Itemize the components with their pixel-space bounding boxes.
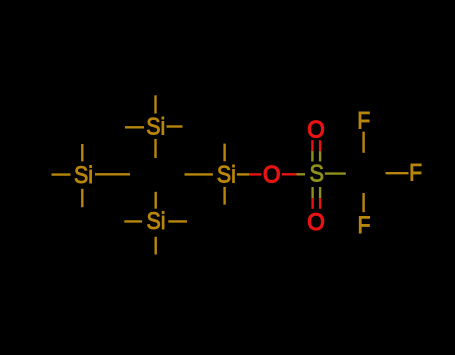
double bond S1=O2 line b (S half) [319, 151, 321, 161]
bond C2 to F2 (F half) [386, 172, 409, 174]
svg-text:O: O [263, 162, 281, 189]
double bond S1=O2 line a (S half) [311, 151, 313, 161]
svg-text:O: O [307, 209, 325, 236]
bond Si4 to O1 (O half) [249, 173, 261, 175]
svg-text:Si: Si [147, 208, 166, 235]
double bond S1=O3 line b (O half) [319, 198, 321, 209]
svg-text:Si: Si [146, 113, 165, 140]
bond Si2 to C1 [95, 173, 130, 175]
double bond S1=O3 line a (O half) [311, 198, 313, 209]
double bond S1=O2 line a (O half) [311, 140, 313, 151]
bond Si2 methyl up [81, 144, 83, 161]
bond Si4 methyl down [223, 187, 225, 205]
bond S1 to C2 (S half) [325, 172, 346, 174]
svg-text:F: F [358, 212, 371, 239]
bond Si1 methyl left [125, 126, 144, 128]
bond Si3 methyl right [168, 220, 187, 222]
double bond S1=O2 line b (O half) [319, 140, 321, 151]
bond Si3 methyl down [154, 237, 156, 255]
svg-text:F: F [409, 159, 422, 186]
double bond S1=O3 line a (S half) [311, 187, 313, 198]
bond C2 to F1 (F half) [362, 132, 364, 153]
double bond S1=O3 line b (S half) [319, 187, 321, 198]
bond Si1 methyl up [154, 95, 156, 113]
bond Si3 methyl left [124, 220, 142, 222]
bond C1 to Si4 (Si half) [185, 173, 213, 175]
bond Si4 methyl up [223, 144, 225, 162]
bond Si4 to O1 (Si half) [237, 173, 249, 175]
bond Si1 methyl right [167, 125, 183, 127]
bond Si1 to C1 [154, 139, 156, 158]
svg-text:S: S [310, 160, 325, 187]
svg-text:Si: Si [74, 162, 93, 189]
bond Si2 methyl down [81, 189, 83, 207]
bond Si2 methyl left [52, 173, 71, 175]
svg-text:O: O [307, 116, 325, 143]
bond C2 to F3 (F half) [362, 193, 364, 212]
bond O1 to S1 (O half) [282, 173, 297, 175]
bond O1 to S1 (S half) [297, 173, 306, 175]
svg-text:F: F [357, 108, 370, 135]
svg-text:Si: Si [217, 161, 236, 188]
bond Si3 to C1 [154, 192, 156, 209]
